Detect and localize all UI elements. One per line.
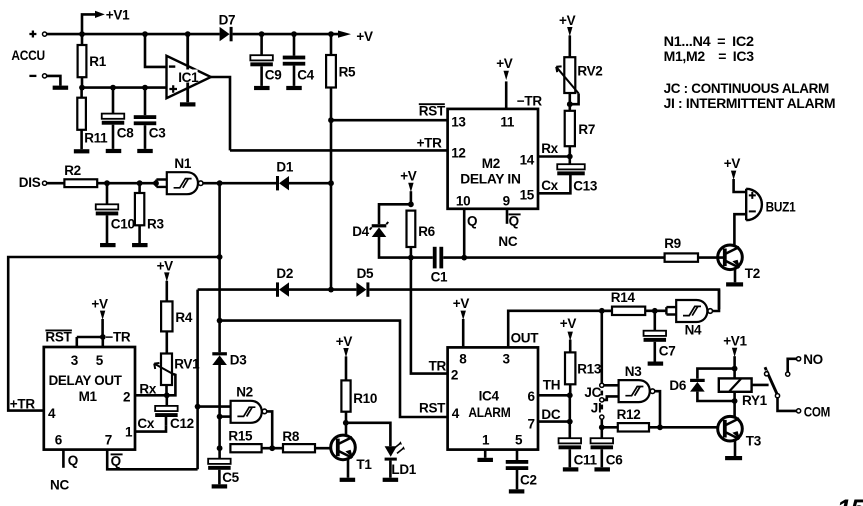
contact armature top [765,372,769,376]
svg-text:+TR: +TR [417,136,443,151]
svg-text:15: 15 [837,495,863,506]
ground ACCU - [53,86,69,90]
op-amp IC1 [167,56,211,98]
junction T1 collector node [343,420,349,426]
label +V of M2 [496,56,513,71]
wire C5 bottom [218,470,221,485]
ground T1 [340,478,356,482]
arrow +V top [338,31,351,38]
ground LD1 [383,478,399,482]
label TH of IC4 [543,378,560,393]
wire D1 to R5 line [289,182,331,185]
ground R11 [74,149,90,153]
label R8 [282,429,299,444]
svg-text:C11: C11 [574,452,598,467]
label R10 [353,391,377,406]
switch armature [765,367,777,394]
svg-text:TR: TR [429,358,447,373]
svg-text:9: 9 [503,193,510,208]
resistor R1 [78,45,87,77]
svg-text:8: 8 [459,352,467,367]
wire RV2 wiper [570,93,579,104]
pin 10 of M2 [456,193,470,208]
label N4 [685,323,702,338]
svg-text:N1...N4 = IC2: N1...N4 = IC2 [664,34,754,49]
label R13 [577,361,602,376]
pin 11 of M2 [500,114,514,129]
wire N1 node down [218,183,221,352]
wire R3 top [138,183,141,193]
wire C9 stub [260,34,263,55]
arrow +V M2 [504,71,509,80]
wire T1 emitter [347,458,350,478]
label R7 [578,122,595,137]
wire LD1 bottom [389,461,392,478]
junction C7 node [652,308,658,314]
svg-text:RST: RST [45,330,72,345]
IC M2 DELAY IN box [448,109,538,209]
wire JC to N3 input1 [604,384,619,387]
wire C12 bottom [165,417,168,425]
wire pins 3 5 header [77,336,104,339]
transistor T3 [718,416,743,441]
wire M1 pin1 Cx [135,425,166,431]
wire M2 pin9 stub [506,209,509,224]
svg-text:IC4: IC4 [479,389,500,404]
wire OUT to R14 [602,309,612,312]
label D4 [352,224,369,239]
label +V1 [106,7,130,22]
svg-text:1: 1 [482,432,490,447]
ground C3 [137,149,153,153]
pin 2 of IC4 [451,368,458,383]
junction D1 R5 line [328,180,334,186]
junction M1 pin5 node [100,334,106,340]
junction R12 C6 node [599,424,605,430]
wire RV1 bottom [165,385,168,395]
svg-text:C8: C8 [117,126,134,141]
label DIS [19,175,41,190]
resistor R13 [565,352,575,384]
svg-text:D4: D4 [352,224,369,239]
capacitor C1 [433,247,443,269]
label RST of M1 [45,330,72,345]
wire +V1 stem [733,356,736,378]
wire R11 bottom [80,130,83,149]
svg-text:+V: +V [559,13,576,28]
resistor R11 [77,98,86,130]
wire NO contact up [788,359,797,372]
label +V of RV2 [559,13,576,28]
terminal NO [797,357,801,361]
wire M1 pin7 Qbar [107,450,197,470]
diode D6 [690,379,705,392]
label D7 [219,13,236,28]
pin 7 of IC4 [528,416,535,431]
resistor R14 [612,307,645,315]
label C9 [265,68,282,83]
wire JI common link [600,405,603,410]
wire R12 to T3 base [649,426,725,429]
label +V of R10 [336,334,353,349]
fork N1 tied inputs [156,180,166,187]
label D3 [230,352,247,367]
svg-text:−TR: −TR [105,330,131,345]
contact common JCJI [600,415,604,419]
capacitor C10 [96,204,119,215]
svg-text:+V1: +V1 [723,334,747,349]
capacitor C7 [644,331,667,342]
wire N4 output up [713,290,720,311]
label C10 [111,216,135,231]
wire +V to IC4 pin8 [462,319,465,347]
pin 2 of M1 [123,390,130,405]
wire C3 bottom [144,125,147,149]
svg-text:D6: D6 [669,378,686,393]
svg-text:5: 5 [515,432,523,447]
trimmer RV2 [564,57,575,93]
svg-text:15: 15 [520,188,535,203]
capacitor C11 [559,438,582,449]
wire T3 emitter [734,439,737,456]
wire D4 top [379,204,411,224]
junction N2 input1 [195,404,201,410]
gate N3 [619,380,650,402]
label RV2 [577,63,602,78]
wire RST of IC4 [220,321,448,417]
pin 5 of M1 [96,353,104,368]
wire BUZ1 minus to T2 [734,214,746,246]
junction TH node [567,392,573,398]
label C7 [659,343,676,358]
label C4 [297,68,314,83]
svg-text:13: 13 [451,114,466,129]
svg-text:+V: +V [400,169,417,184]
wire node to C1 [411,256,433,259]
pin 8 of IC4 [459,352,467,367]
wire R5 to RST node [330,88,333,121]
svg-text:ALARM: ALARM [468,405,510,420]
svg-text:RST: RST [419,103,446,118]
pin 5 of IC4 [515,432,523,447]
svg-text:M1: M1 [79,389,98,404]
label C2 [520,472,537,487]
diode D2 [276,282,289,296]
junction R3 [137,180,143,186]
fork N4 tied inputs [666,307,676,314]
label C11 [574,452,598,467]
pin 7 of M1 [105,432,112,447]
label +V1 of relay [723,334,747,349]
label +V of R4 [157,258,174,273]
junction RST row [328,117,334,123]
junction M1 TR branch [217,254,223,260]
wire IC1 power and ground [186,34,189,102]
arrow +V1 [95,11,105,18]
junction D2 D5 node [328,287,334,293]
ground C4 [286,86,302,90]
wire C4 stub [293,34,296,56]
label C12 [170,416,194,431]
label R4 [175,310,192,325]
terminal - of ACCU [29,75,36,77]
svg-text:6: 6 [55,432,63,447]
label LD1 [391,462,416,477]
wire +V to R4 [166,281,169,302]
pin 9 of M2 [503,193,510,208]
svg-text:DC: DC [541,407,560,422]
wire TR node down to IC4 [411,258,448,374]
terminal COM [797,409,801,413]
IC M1 DELAY OUT box [44,347,135,450]
pin 6 of IC4 [528,389,536,404]
label +V top rail [356,29,373,44]
svg-text:5: 5 [96,353,104,368]
terminal circle + [43,32,47,36]
label R2 [64,163,81,178]
svg-text:6: 6 [528,389,536,404]
relay coil RY1 [719,378,752,391]
label JI [591,400,602,415]
capacitor C9 [250,55,273,66]
wire C1 to Q node [443,256,664,259]
label C8 [117,126,134,141]
label DELAY IN [460,172,520,187]
svg-text:Q: Q [509,214,519,229]
wire +TR row to M2 pin12 [230,149,448,152]
junction IC1 minus takeoff [142,31,148,37]
svg-text:TH: TH [543,378,560,393]
wire R14 to N4 [645,309,666,312]
wire C4 bottom [293,66,296,86]
arrow +V RV2 [567,27,572,36]
label JC [584,385,601,400]
svg-text:M1,M2 = IC3: M1,M2 = IC3 [664,49,755,64]
svg-text:C9: C9 [265,68,282,83]
note M1 M2 IC3 line2 [664,49,755,64]
wire M2 pin15 Cx [538,175,570,193]
pin 3 of M1 [71,353,79,368]
svg-text:DIS: DIS [19,175,41,190]
ground C9 [254,86,269,90]
wire N2 output [267,411,272,448]
label R11 [84,131,108,146]
arrow of RV1 [154,363,173,374]
label N2 [236,384,253,399]
wire C11 bottom [568,449,571,467]
bubble N4 output [708,309,713,314]
label R1 [89,54,106,69]
wire C7 stub [653,311,656,331]
svg-text:+V1: +V1 [106,7,130,22]
svg-text:C7: C7 [659,343,676,358]
svg-text:R14: R14 [611,290,636,305]
svg-text:DELAY OUT: DELAY OUT [49,373,123,388]
wire to IC1 minus input [145,34,167,67]
trimmer RV1 [161,354,172,386]
label Qbar of M2 [509,214,521,229]
wire +V to R6 node [410,191,413,204]
pin 4 of IC4 [452,406,460,421]
label T1 [356,457,372,472]
svg-text:+V: +V [336,334,353,349]
diode D7 [220,27,233,41]
label -TR of M2 [517,93,543,108]
wire N2 input2 [220,415,231,418]
label Q of M2 [467,214,477,229]
label D6 [669,378,686,393]
wire to LD1 [346,423,391,446]
wire R13 bottom [569,384,572,395]
svg-text:D2: D2 [276,266,293,281]
junction R1 R11 node [79,85,85,91]
pin 1 of M1 [125,424,133,439]
svg-text:T1: T1 [356,457,372,472]
label M1 [79,389,98,404]
label TR of IC4 [429,358,447,373]
svg-text:7: 7 [105,432,112,447]
junction C4 [291,31,297,37]
wire M1 pin3 [76,337,79,347]
ground C7 [648,362,664,366]
label R3 [147,216,164,231]
note N1 N4 IC2 line1 [664,34,754,49]
svg-text:C6: C6 [606,452,623,467]
svg-text:JI : INTERMITTENT ALARM: JI : INTERMITTENT ALARM [664,96,836,111]
label IC1 [178,70,200,85]
note JC continuous alarm [664,81,829,96]
label N1 [174,156,191,171]
svg-text:C10: C10 [111,216,135,231]
wire M2 pin14 Rx [538,155,570,158]
wire +V to R10 [345,356,348,380]
svg-text:N3: N3 [625,364,642,379]
junction relay bottom node [732,398,738,404]
wire N3 output [655,391,660,427]
resistor R2 [64,179,97,187]
wire IC4 pin5 to C2 [516,450,519,460]
ground C11 [563,467,579,471]
wire - to ground [47,76,61,86]
wire R12 row [602,426,618,429]
label Cx of M2 [541,178,558,193]
svg-text:+V: +V [453,296,470,311]
svg-text:−TR: −TR [517,93,543,108]
arrow +V R10 [343,348,348,357]
resistor R12 [618,423,649,431]
wire C10 stub [106,183,109,204]
wire R11 top [80,88,83,98]
svg-text:R5: R5 [339,65,356,80]
gate N1 [167,172,198,194]
label IC4 [479,389,500,404]
junction Rx node M2 [567,154,573,160]
svg-text:BUZ1: BUZ1 [766,199,796,214]
svg-text:R6: R6 [418,224,435,239]
junction N2 input2 [217,414,223,420]
label N3 [625,364,642,379]
svg-text:NC: NC [50,478,69,493]
wire relay to T3 collector [733,392,736,417]
resistor R15 [230,444,261,452]
pin 13 of M2 [451,114,466,129]
svg-text:T2: T2 [745,266,760,281]
svg-text:C4: C4 [297,68,314,83]
svg-text:+V: +V [157,258,174,273]
svg-text:+TR: +TR [10,396,36,411]
arrow +V R4 [164,272,169,281]
svg-text:OUT: OUT [511,330,540,345]
svg-text:R8: R8 [282,429,299,444]
svg-text:R1: R1 [89,54,106,69]
label C6 [606,452,623,467]
junction M2 Q node [461,255,467,261]
label +V of R6 [400,169,417,184]
terminal DIS [43,181,47,185]
label R9 [664,236,681,251]
svg-text:Cx: Cx [541,178,558,193]
zener diode D4 [370,222,389,237]
label T2 [745,266,760,281]
ground R3 [132,243,148,247]
wire D2 to D5 [289,288,356,291]
wire R5 node down to D1 row [330,120,333,183]
wire IC4 pin1 gnd [484,450,487,458]
svg-text:+V: +V [496,56,513,71]
arrow +V BUZ1 [731,171,736,180]
arrow +V R6 [408,183,413,192]
svg-text:RST: RST [419,400,446,415]
diode D5 [356,282,369,296]
svg-text:+V: +V [356,29,373,44]
resistor R6 [407,211,416,247]
label DC of IC4 [541,407,560,422]
svg-text:R7: R7 [578,122,595,137]
capacitor C4 [283,56,306,66]
label COM [804,404,830,419]
wire C13 top [568,157,571,165]
label C5 [222,470,239,485]
svg-text:Q: Q [467,214,477,229]
svg-text:R11: R11 [84,131,108,146]
junction C10 [104,180,110,186]
bubble N1 output [198,181,203,186]
svg-text:+V: +V [91,297,108,312]
svg-text:COM: COM [804,404,830,419]
wire M1 pin2 Rx [135,394,167,397]
junction R5 [328,31,334,37]
svg-text:RV1: RV1 [174,356,200,371]
svg-text:C3: C3 [149,126,166,141]
svg-text:12: 12 [451,146,465,161]
ground IC1 [180,102,196,106]
svg-text:4: 4 [48,406,56,421]
wire D6 bottom [697,392,734,401]
svg-text:M2: M2 [482,156,500,171]
wire +V to R13 [569,340,572,353]
ground C5 [212,484,228,488]
junction N1 input [153,180,159,186]
contact JC [600,383,604,387]
label OUT of IC4 [511,330,540,345]
arrow +V1 relay [732,348,737,357]
wire common to R12 node [600,419,603,438]
wire D1 node down to D2 D5 row [330,183,333,289]
svg-text:RY1: RY1 [742,393,768,408]
svg-text:+V: +V [724,156,741,171]
svg-text:R4: R4 [175,310,192,325]
label NC of M2 [498,234,517,249]
